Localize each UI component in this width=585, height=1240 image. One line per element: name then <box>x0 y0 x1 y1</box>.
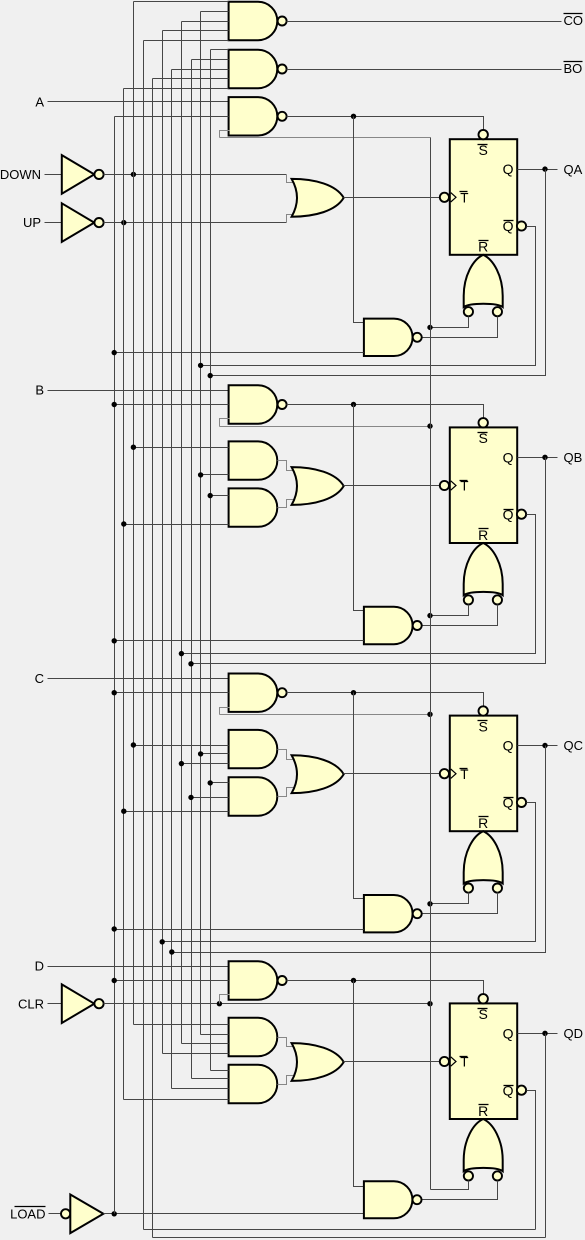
wire reset drop stage QA <box>354 117 364 323</box>
nand gate N1 (stage QA reset) <box>364 319 413 356</box>
nor gate R2 (reset OR, inverted inputs) <box>464 543 503 595</box>
junction QA-bar / bus line 10 <box>198 363 203 368</box>
wire bus line 8 to A3a input 3 <box>182 763 229 765</box>
wire CO input 4 from bus line 6 <box>163 30 229 32</box>
wire bus line 11 to A3b input 1 <box>211 782 229 784</box>
wire CLR-bar to R3 left input <box>431 893 469 904</box>
wire D to stage-D NAND <box>48 966 229 968</box>
wire CLR to inverter <box>48 1003 62 1005</box>
svg-text:Q: Q <box>503 506 514 522</box>
wire bus line 1 to N1 input 2 <box>115 352 364 354</box>
wire CLR-bar to CLR vertical <box>104 1003 431 1005</box>
nand gate CO (5-input carry) <box>229 2 278 40</box>
and gate A2b (up steering) <box>229 488 278 526</box>
wire QD feedback to bottom wrap <box>545 1034 547 1238</box>
wire S4 hook input to CLR-bar <box>220 995 230 1004</box>
wire S3 hook input to CLR-bar <box>220 708 230 715</box>
wire bus line 6 (QC-bar) vertical <box>162 31 164 1054</box>
wire QD-bar feedback to bottom wrap <box>527 1091 536 1230</box>
wire bus line 2 to A3b input 3 <box>124 811 229 813</box>
junction hook stage QC / CLR vertical <box>427 712 432 717</box>
svg-text:R: R <box>478 815 488 831</box>
wire reset drop stage QD <box>354 981 364 1187</box>
wire A3a output to OR3 <box>278 750 297 760</box>
wire BO input 2 from bus line 9 <box>192 59 229 61</box>
svg-text:B: B <box>35 383 44 398</box>
and gate A3a (down steering) <box>229 730 278 768</box>
wire S1 hook input to CLR-bar <box>220 131 230 138</box>
wire bus line 7 (QC) vertical <box>171 70 173 1089</box>
wire reset drop stage QB <box>354 405 364 611</box>
svg-text:R: R <box>478 527 488 543</box>
inverter U2 (UP) <box>62 203 95 242</box>
wire FF1 Q to output QA <box>518 169 558 171</box>
junction QC output <box>542 743 547 748</box>
junction UP-bar / bus line 2 <box>121 220 126 225</box>
junction S1 output / reset drop <box>351 114 356 119</box>
svg-text:Q: Q <box>503 738 514 754</box>
svg-text:UP: UP <box>23 215 41 230</box>
wire A to stage-A NAND <box>48 101 229 103</box>
nand gate S1 (stage QA set) <box>229 97 278 135</box>
wire bus line 5 (QD) vertical <box>152 79 154 1238</box>
junction QB / bus line 9 <box>188 661 193 666</box>
svg-text:BO: BO <box>564 61 583 76</box>
wire CLR-bar long vertical <box>430 138 432 1190</box>
wire bus line 11 (QA) vertical <box>210 50 212 1071</box>
wire bus line 11 to A2b input 1 <box>211 495 229 497</box>
wire A2b output to OR2 <box>278 500 297 508</box>
wire S3 output to FF3 S-bar <box>287 693 484 707</box>
nand gate S2 (stage QB set) <box>229 385 278 423</box>
wire bus line 10 to A2a input 2 <box>201 474 229 476</box>
wire OR4 output to FF4 T-bar <box>344 1061 440 1063</box>
nor gate R1 (reset OR, inverted inputs) <box>464 255 503 307</box>
wire S2 hook input to CLR-bar <box>220 419 230 427</box>
junction CLR-bar / stage-D hook <box>217 1001 222 1006</box>
wire A3b output to OR3 <box>278 788 297 797</box>
wire BO input 4 from bus line 5 <box>153 78 229 80</box>
wire bus line 11 to A4b input 1 <box>211 1070 229 1072</box>
svg-text:QD: QD <box>564 1026 584 1041</box>
wire bus line 10 (QA-bar) vertical <box>200 12 202 1035</box>
wire BO input 1 from bus line 11 <box>211 49 229 51</box>
nand gate S3 (stage QC set) <box>229 674 278 712</box>
junction QC / bus line 7 <box>169 949 174 954</box>
inverter U3 (CLR) <box>62 984 95 1023</box>
nand gate N3 (stage QC reset) <box>364 895 413 932</box>
wire bus line 1 to S4 input 2 <box>115 980 229 982</box>
wire bus line 1 to S1 input 2 <box>115 116 229 118</box>
svg-text:QC: QC <box>564 738 584 753</box>
or gate OR1 (toggle) <box>292 179 344 217</box>
wire CLR-bar to R1 left input <box>431 317 469 328</box>
nand gate N2 (stage QB reset) <box>364 607 413 644</box>
svg-text:R: R <box>478 1103 488 1119</box>
wire A4b output to OR4 <box>278 1076 297 1085</box>
junction LOAD-bar / bus line 1 <box>112 1211 117 1216</box>
wire A2a output to OR2 <box>278 461 297 471</box>
wire BO output <box>287 69 562 71</box>
or gate OR4 (toggle) <box>292 1043 344 1081</box>
wire bus line 4 (QD-bar) vertical <box>143 41 145 1230</box>
wire CO input 3 from bus line 8 <box>182 21 229 23</box>
wire bus line 10 to A3a input 2 <box>201 753 229 755</box>
wire QA-bar feedback wrap <box>201 227 536 366</box>
wire S2 output to FF2 S-bar <box>287 405 484 419</box>
wire QA feedback wrap <box>211 170 546 376</box>
junction CLR vertical / R1 <box>427 325 432 330</box>
svg-text:Q: Q <box>503 449 514 465</box>
svg-text:DOWN: DOWN <box>0 167 41 182</box>
svg-text:QB: QB <box>564 450 583 465</box>
wire N3 output to R3 right input <box>422 893 498 914</box>
wire QD-bar bottom wrap <box>144 1229 536 1231</box>
junction S3 output / reset drop <box>351 690 356 695</box>
wire LOAD-bar line <box>104 1213 364 1215</box>
junction S2 output / reset drop <box>351 402 356 407</box>
wire S4 output to FF4 S-bar <box>287 981 484 995</box>
wire QC-bar feedback wrap <box>163 803 536 942</box>
wire S1 output to FF1 S-bar <box>287 117 484 130</box>
junction CLR vertical / R3 <box>427 901 432 906</box>
wire reset drop stage QC <box>354 693 364 899</box>
wire bus line 3 to A3a input 1 <box>134 745 229 747</box>
wire A4a output to OR4 <box>278 1038 297 1047</box>
wire N4 output to R4 right input <box>422 1181 498 1200</box>
wire bus line 9 (QB) vertical <box>191 60 193 1079</box>
wire DOWN to inverter <box>45 174 62 176</box>
svg-text:D: D <box>35 959 44 974</box>
and gate A2a (down steering) <box>229 441 278 479</box>
wire bus line 1 to N2 input 2 <box>115 640 364 642</box>
flip-flop FF2 (QB) <box>450 427 517 543</box>
wire QC feedback wrap <box>172 746 546 953</box>
svg-text:Q: Q <box>503 1082 514 1098</box>
flip-flop FF4 (QD) <box>450 1003 517 1119</box>
wire bus line 3 to A2a input 1 <box>134 447 229 449</box>
junction QA / bus line 11 <box>208 373 213 378</box>
wire CLR-bar to R4 left input <box>431 1181 469 1190</box>
flip-flop FF1 (QA) <box>450 139 517 255</box>
wire CO input 5 from bus line 4 <box>144 40 229 42</box>
junction hook stage QB / CLR vertical <box>427 423 432 428</box>
svg-text:LOAD: LOAD <box>10 1206 45 1221</box>
wire CO output <box>287 21 562 23</box>
junction CLR vertical / R2 <box>427 613 432 618</box>
wire bus line 8 to A4a input 3 <box>182 1043 229 1045</box>
or gate OR3 (toggle) <box>292 755 344 793</box>
junction QC-bar / bus line 6 <box>160 939 165 944</box>
wire BO input 3 from bus line 7 <box>172 69 229 71</box>
flip-flop FF3 (QC) <box>450 716 517 832</box>
and gate A4a (down steering) <box>229 1018 278 1056</box>
junction QB-bar / bus line 8 <box>179 651 184 656</box>
or gate OR2 (toggle) <box>292 467 344 505</box>
nand gate N4 (stage QD reset) <box>364 1181 413 1218</box>
wire QD bottom wrap <box>153 1237 546 1239</box>
wire bus line 1 to N3 input 2 <box>115 929 364 931</box>
wire C to stage-C NAND <box>48 678 229 680</box>
junction S4 output / reset drop <box>351 978 356 983</box>
svg-text:CLR: CLR <box>18 996 44 1011</box>
svg-text:C: C <box>35 671 44 686</box>
svg-text:Q: Q <box>503 161 514 177</box>
wire bus line 2 to A2b input 2 <box>124 524 229 526</box>
svg-text:T: T <box>460 190 468 205</box>
wire B to stage-B NAND <box>48 390 229 392</box>
wire bus line 8 (QB-bar) vertical <box>181 22 183 1044</box>
wire bus line 3 (DOWN-bar) vertical <box>133 2 135 1025</box>
nand gate S4 (stage QD set) <box>229 961 278 999</box>
wire bus line 2 to A4b input 4 <box>124 1099 229 1101</box>
junction DOWN-bar / bus line 3 <box>131 172 136 177</box>
wire UP to inverter <box>45 222 62 224</box>
wire LOAD to buffer <box>49 1213 61 1215</box>
wire OR2 output to FF2 T-bar <box>344 485 440 487</box>
and gate A3b (up steering) <box>229 777 278 815</box>
wire UP-bar to stage-A OR input 2 <box>104 222 287 224</box>
wire bus line 10 to A4a input 2 <box>201 1034 229 1036</box>
svg-text:Q: Q <box>503 1025 514 1041</box>
wire OR3 output to FF3 T-bar <box>344 773 440 775</box>
wire bus line 7 to A4b input 3 <box>172 1088 229 1090</box>
wire bus line 9 to A3b input 2 <box>192 797 229 799</box>
junction CLR-bar / CLR vertical <box>427 1001 432 1006</box>
wire bus line 1 (LOAD-bar) vertical <box>114 117 116 1214</box>
junction QB output <box>542 455 547 460</box>
wire QB-bar feedback wrap <box>182 515 536 654</box>
wire OR1 output to FF1 T-bar <box>344 197 440 199</box>
wire FF2 Q to output QB <box>518 457 558 459</box>
wire bus line 1 to S3 input 2 <box>115 692 229 694</box>
wire bus line 6 to A4a input 4 <box>163 1053 229 1055</box>
inverter U1 (DOWN) <box>62 155 95 194</box>
wire N2 output to R2 right input <box>422 605 498 626</box>
junction QA output <box>542 166 547 171</box>
wire FF3 Q to output QC <box>518 745 558 747</box>
wire bus line 9 to A4b input 2 <box>192 1078 229 1080</box>
wire CO input 2 from bus line 10 <box>201 11 229 13</box>
svg-text:A: A <box>35 94 44 109</box>
wire CO input 1 from bus line 3 <box>134 1 229 3</box>
nor gate R4 (reset OR, inverted inputs) <box>464 1119 503 1171</box>
nand gate BO (5-input borrow) <box>229 50 278 88</box>
wire FF4 Q to output QD <box>518 1033 558 1035</box>
svg-text:CO: CO <box>564 13 584 28</box>
and gate A4b (up steering) <box>229 1065 278 1103</box>
junction QD output <box>542 1031 547 1036</box>
wire bus line 1 to S2 input 2 <box>115 404 229 406</box>
wire CLR-bar to R2 left input <box>431 605 469 616</box>
buffer U4 (LOAD, inverted input) <box>61 1209 70 1218</box>
svg-text:QA: QA <box>564 162 583 177</box>
wire QB feedback wrap <box>192 458 546 664</box>
wire N1 output to R1 right input <box>422 317 498 338</box>
nor gate R3 (reset OR, inverted inputs) <box>464 831 503 883</box>
wire BO input 5 from bus line 2 <box>124 88 229 90</box>
wire bus line 3 to A4a input 1 <box>134 1024 229 1026</box>
wire bus line 2 (UP-bar) vertical <box>123 89 125 1100</box>
wire DOWN-bar to stage-A OR input 1 <box>104 174 287 176</box>
